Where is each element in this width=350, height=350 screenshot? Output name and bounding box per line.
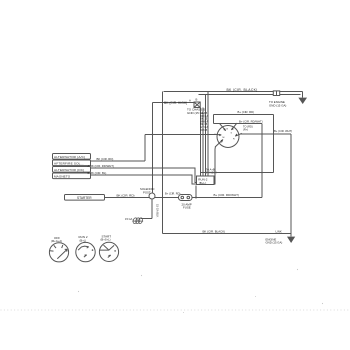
svg-text:BK (CIR. HIGH): BK (CIR. HIGH) [164, 101, 187, 105]
wire starter to post [105, 197, 150, 199]
svg-text:15 GA BLK: 15 GA BLK [156, 204, 160, 218]
svg-text:ALTERNATOR (DC): ALTERNATOR (DC) [54, 168, 84, 172]
svg-text:BK (CIR. BLACK): BK (CIR. BLACK) [227, 88, 258, 92]
harness pin labels column [200, 111, 208, 132]
svg-text:(M+G+A): (M+G+A) [51, 239, 62, 243]
svg-text:BK (CIR. BLACK): BK (CIR. BLACK) [203, 229, 226, 233]
junction dot at fuse line [195, 197, 197, 199]
ground engine (top right) [299, 98, 306, 103]
harness bundle verticals [201, 92, 209, 177]
svg-text:A BK (CIR. RD/WHT): A BK (CIR. RD/WHT) [88, 164, 114, 168]
svg-text:LINK: LINK [276, 230, 282, 234]
svg-text:BK (CIR. RD): BK (CIR. RD) [97, 157, 114, 161]
svg-text:B+ (CIR. RD/WHT): B+ (CIR. RD/WHT) [214, 193, 239, 197]
svg-text:STARTER: STARTER [77, 196, 92, 200]
connector inline top [273, 91, 279, 96]
afterfire sol box [53, 160, 91, 166]
svg-text:GND (15 GA): GND (15 GA) [269, 104, 286, 108]
svg-text:POST: POST [143, 190, 151, 194]
wire vertical to solenoid post [152, 103, 154, 193]
alternator (DC) box [53, 167, 91, 173]
svg-text:BK (CIR. RD): BK (CIR. RD) [117, 194, 135, 198]
key switch circle [217, 126, 239, 148]
svg-text:B+ (CIR. RD): B+ (CIR. RD) [238, 110, 255, 114]
svg-text:(R+): (R+) [243, 128, 248, 132]
fuse 20 amp [179, 195, 193, 201]
svg-text:FUSE: FUSE [183, 206, 191, 210]
wire connector CB1 drop [195, 186, 197, 198]
svg-text:B+ (CIR. WHT): B+ (CIR. WHT) [274, 129, 292, 133]
wire top ground bus BK (CIR. BLACK) [164, 92, 303, 98]
svg-text:AFTERFIRE SOL...: AFTERFIRE SOL... [54, 161, 84, 165]
svg-text:M: M [223, 137, 225, 139]
connector X-box chassis gnd [194, 102, 200, 108]
connector CB1 box [197, 176, 215, 185]
wire inner B+ (CIR. RD/WHT) [214, 115, 263, 124]
key position START circle [99, 242, 118, 261]
key switch pin B (top-left) [220, 124, 226, 131]
starter box [65, 195, 105, 201]
wire bottom ground bus [163, 134, 292, 237]
key position RUN circle [76, 242, 95, 261]
svg-text:B+ (CIR. RD): B+ (CIR. RD) [165, 191, 180, 195]
wire afterfire to switch (BK CIR RD) [91, 135, 146, 162]
key switch pin L (bottom-left) wire down [215, 140, 223, 148]
key switch pin R (right) [235, 133, 242, 136]
svg-text:B BK (CIR. BL): B BK (CIR. BL) [88, 171, 107, 175]
svg-text:(B+L): (B+L) [80, 238, 87, 242]
wire post to fuse and B+ riser [155, 124, 262, 198]
ground engine (bottom right) [288, 237, 294, 242]
wire M line to key switch [145, 134, 217, 136]
faint scan fold line [1, 309, 350, 311]
wire magneto to connector [91, 175, 197, 184]
key switch tiny letters [221, 128, 235, 144]
scan noise specks [78, 269, 323, 313]
key switch pin M (left) [214, 133, 221, 136]
key switch enclosure top B+ (CIR. RD) [214, 115, 274, 173]
svg-text:A: A [189, 99, 191, 103]
svg-text:B: B [196, 98, 198, 102]
svg-text:MAGNETO: MAGNETO [54, 174, 71, 178]
svg-text:(B+S+L): (B+S+L) [101, 238, 111, 242]
wire alternator DC to connector [91, 168, 197, 183]
alternator (A/C) box [53, 154, 91, 160]
wire key switch R to right ground riser [240, 133, 291, 135]
wire post to engine ground [141, 199, 153, 219]
svg-text:GND (15 GA): GND (15 GA) [266, 241, 283, 245]
svg-text:15 GA: 15 GA [125, 217, 133, 221]
junction dot [152, 134, 154, 136]
junction dot riser [261, 172, 263, 174]
wire second top bus [199, 94, 301, 96]
svg-text:(B+L): (B+L) [199, 181, 206, 185]
svg-text:B+ (CIR. RD/WHT): B+ (CIR. RD/WHT) [239, 119, 263, 123]
svg-text:ALTERNATOR (A/C): ALTERNATOR (A/C) [54, 155, 85, 159]
ground engine block (scribble coil) [132, 217, 143, 224]
wire CB1 right stub [201, 172, 216, 174]
wire BK (CIR. HIGH) [153, 102, 195, 104]
magneto box [53, 173, 91, 179]
solenoid post [149, 193, 155, 199]
wire left long vertical [162, 92, 164, 234]
key switch pin S (top-right) [231, 123, 237, 130]
key position OFF circle [49, 243, 68, 262]
